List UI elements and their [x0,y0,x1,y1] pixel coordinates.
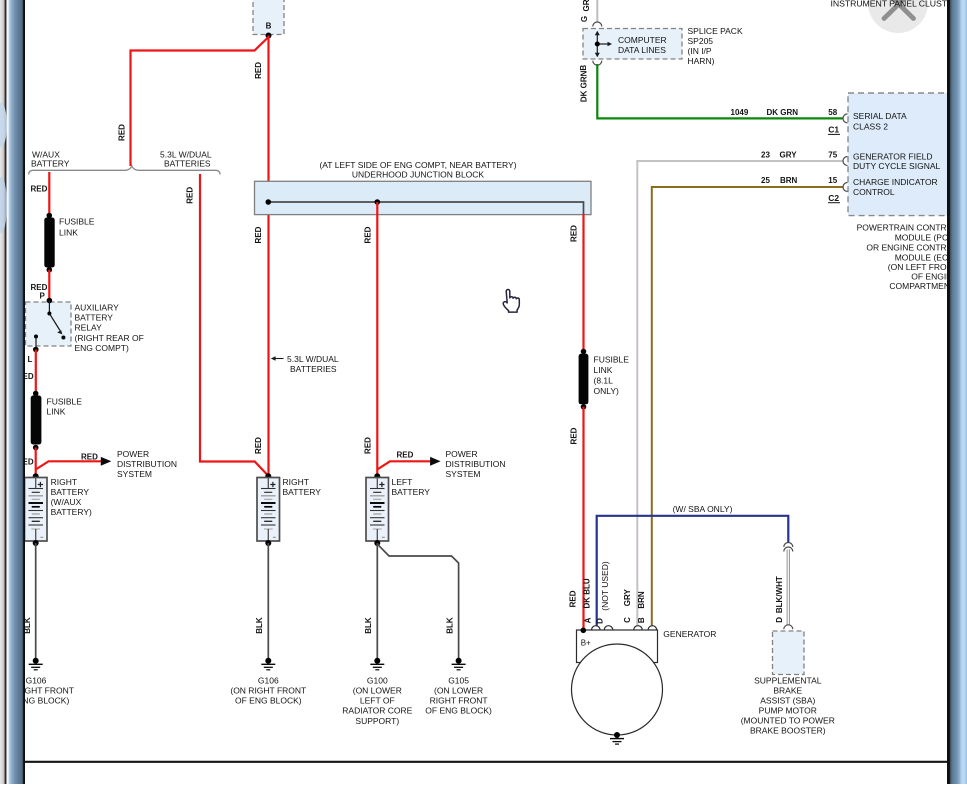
connector arc SBA pin D [784,625,793,630]
svg-text:UNDERHOOD JUNCTION BLOCK: UNDERHOOD JUNCTION BLOCK [352,169,485,179]
svg-text:BLK: BLK [445,617,454,634]
svg-text:SYSTEM: SYSTEM [446,469,481,479]
svg-text:BRAKE: BRAKE [773,685,802,695]
svg-text:ASSIST (SBA): ASSIST (SBA) [760,695,815,705]
auxiliary battery relay K1 [26,298,72,353]
svg-text:G: G [580,16,589,22]
svg-text:LEFT: LEFT [392,477,413,487]
svg-text:1049: 1049 [731,108,749,117]
wire GRY from PCM pin 75 to generator pin C [637,161,842,626]
ground G100 [370,658,384,670]
left bar soft highlight blob [0,103,7,147]
svg-text:RED: RED [31,184,48,193]
fusible link F2 top dot [33,391,39,397]
svg-text:BATTERY): BATTERY) [51,507,92,517]
left window edge bar [0,0,25,784]
svg-text:(ON RIGHT FRONT: (ON RIGHT FRONT [230,686,306,696]
wire BLK battery BT2 to ground G106 [267,543,269,660]
connector arc pin 15 [843,183,848,192]
svg-text:5.3L W/DUAL: 5.3L W/DUAL [287,354,339,364]
svg-text:RED: RED [81,452,98,461]
svg-text:GRY: GRY [780,150,798,159]
label SUPPLEMENTAL BRAKE ASSIST (SBA) PUMP MOTOR [741,676,835,736]
svg-text:(NOT USED): (NOT USED) [600,561,610,611]
battery BT2 right battery [257,478,280,542]
svg-text:C2: C2 [828,193,839,203]
connector arc bottom of splice pack [593,61,602,65]
svg-text:DUTY CYCLE SIGNAL: DUTY CYCLE SIGNAL [853,161,941,171]
svg-text:SP205: SP205 [688,36,714,46]
fusible link F1 top dot [47,213,53,219]
wire RED brace-left down to fusible link [48,172,50,216]
close button [868,0,928,33]
wire BLK/WHT to SBA pump motor [787,550,790,625]
fusible link F2 [31,396,42,445]
svg-text:RELAY: RELAY [75,323,103,333]
wire BLK battery BT3 to ground G100 [376,543,378,660]
svg-text:23: 23 [761,150,770,159]
svg-text:D: D [775,617,784,623]
battery BT1 right battery (w/aux battery) [25,478,48,542]
svg-text:RED: RED [186,187,195,204]
wire RED branch to power distribution [36,461,101,469]
battery BT3 left battery top dot [374,473,380,479]
wire DK GRN from splice pack to PCM pin 58 [597,64,842,118]
svg-text:B: B [637,617,646,623]
svg-text:BATTERY: BATTERY [51,487,90,497]
svg-text:D: D [595,618,604,624]
svg-text:BATTERY: BATTERY [31,159,70,169]
wire bus bar inside junction block [268,202,583,215]
svg-text:DISTRIBUTION: DISTRIBUTION [117,459,177,469]
wire RED bus to left battery [376,202,378,477]
ground G105 [452,658,466,670]
wire RED fusible link F2 to right battery(w/aux) [35,448,37,477]
hand cursor [503,289,519,312]
wire RED branch to power distribution (left battery) [377,461,430,469]
wire RED vertical from pin B down to right battery [267,36,269,478]
splice pack internal double arrow [595,31,612,57]
svg-text:RED: RED [254,62,263,79]
svg-text:LINK: LINK [59,228,78,238]
svg-text:BATTERY: BATTERY [75,313,114,323]
svg-text:RED: RED [254,226,263,243]
node bus dot at x=268 [266,199,272,205]
fusible link F1 bottom dot [47,267,53,273]
svg-text:RED: RED [363,437,372,454]
right window edge bar [947,0,967,784]
svg-text:(W/AUX: (W/AUX [51,497,82,507]
svg-text:RED: RED [117,124,126,141]
connector arc generator pin B [648,626,657,630]
svg-text:(MOUNTED TO POWER: (MOUNTED TO POWER [741,715,835,725]
svg-text:75: 75 [828,150,837,159]
battery BT2 right battery top dot [265,473,271,479]
svg-text:BLK: BLK [364,617,373,634]
arrow to power distribution system [430,457,441,466]
svg-text:RED: RED [397,451,414,460]
svg-text:OF ENG BLOCK): OF ENG BLOCK) [235,696,302,706]
svg-text:B: B [266,22,272,31]
svg-text:DISTRIBUTION: DISTRIBUTION [446,459,506,469]
PCM connector box (clipped right) [848,93,965,216]
wire RED relay pin L down to fusible link F2 [35,350,37,394]
svg-text:C1: C1 [828,125,839,135]
svg-text:RIGHT FRONT: RIGHT FRONT [430,696,488,706]
svg-text:BATTERY: BATTERY [283,487,322,497]
svg-text:POWER: POWER [446,449,478,459]
svg-text:RIGHT: RIGHT [51,477,77,487]
svg-text:GRY: GRY [582,0,591,12]
battery BT1 bottom dot [33,540,39,546]
svg-text:GENERATOR: GENERATOR [663,629,716,639]
svg-text:BRN: BRN [637,591,646,609]
fusible link F1 [44,218,54,268]
svg-text:FUSIBLE: FUSIBLE [47,397,83,407]
svg-text:BLK: BLK [255,617,264,634]
note arrow 5.3L W/DUAL BATTERIES [271,356,284,361]
connector B-box (instrument panel cluster pin B, clipped at top) [253,0,284,35]
svg-text:G105: G105 [448,675,469,685]
svg-text:(IN I/P: (IN I/P [688,46,712,56]
svg-text:BRN: BRN [780,176,798,185]
svg-text:GRY: GRY [623,589,632,607]
wire RED from brace-right (5.3L w/dual) down and over to right battery [200,174,268,476]
svg-text:25: 25 [761,176,770,185]
label G105 (ON LOWER RIGHT FRONT OF ENG BLOCK) [425,675,492,715]
battery BT2 bottom dot [265,540,271,546]
svg-text:CLASS 2: CLASS 2 [853,121,888,131]
svg-text:HARN): HARN) [688,56,715,66]
node bus dot at x=377 [375,199,381,205]
svg-text:CONTROL: CONTROL [853,187,895,197]
connector arc pin 58 [843,114,848,123]
battery BT3 left battery [366,478,389,542]
connector arc generator pin A [592,626,601,630]
svg-text:(ON LOWER: (ON LOWER [353,686,402,696]
svg-text:SYSTEM: SYSTEM [117,469,152,479]
svg-text:OF ENG BLOCK): OF ENG BLOCK) [425,706,492,716]
connector arc top of splice pack [593,22,602,27]
svg-text:CHARGE INDICATOR: CHARGE INDICATOR [853,177,938,187]
svg-text:SUPPORT): SUPPORT) [355,716,399,726]
wire RED branch from pin B going left to brace [131,37,269,166]
fusible link F2 bottom dot [33,445,39,451]
svg-text:COMPUTER: COMPUTER [618,35,667,45]
connector arc generator pin D [604,626,613,630]
svg-text:(RIGHT REAR OF: (RIGHT REAR OF [75,333,144,343]
connector arc generator pin C [634,626,643,630]
svg-text:SUPPLEMENTAL: SUPPLEMENTAL [754,676,822,686]
svg-text:BATTERIES: BATTERIES [164,159,211,169]
svg-text:B+: B+ [581,638,591,647]
fusible link F3 top dot [581,349,587,355]
label G106 (ON RIGHT FRONT OF ENG BLOCK) [230,675,306,705]
bottom frame line of schematic page [25,761,948,763]
svg-text:DK GRN: DK GRN [579,70,588,102]
wire RED junction block to fusible link F3 [582,214,584,352]
battery BT1 right battery (w/aux) top dot [33,473,39,479]
svg-text:RED: RED [254,437,263,454]
svg-text:L: L [28,355,33,364]
svg-text:OR ENGINE CONTROL: OR ENGINE CONTROL [866,243,958,253]
fusible link F3 (8.1L only) [579,354,589,405]
svg-text:G106: G106 [258,675,279,685]
connector arc pin 75 [843,157,848,166]
svg-text:DK GRN: DK GRN [767,108,799,117]
svg-text:(W/ SBA ONLY): (W/ SBA ONLY) [673,504,733,514]
wire DK BLU generator pin A to SBA connector [597,516,789,626]
svg-text:LINK: LINK [594,365,613,375]
svg-text:P: P [40,291,46,300]
svg-text:RED: RED [569,225,578,242]
svg-text:DATA LINES: DATA LINES [618,45,666,55]
wire BLK battery BT3 branch to ground G105 [377,544,458,660]
svg-text:POWERTRAIN CONTROL: POWERTRAIN CONTROL [857,223,959,233]
svg-text:GENERATOR FIELD: GENERATOR FIELD [853,151,933,161]
svg-text:FUSIBLE: FUSIBLE [59,217,95,227]
svg-text:G100: G100 [367,675,388,685]
svg-text:(ON LOWER: (ON LOWER [434,686,483,696]
ground G106 (left, clipped) [29,658,43,670]
wire BRN from PCM pin 15 to generator pin B [652,187,843,626]
splice pack internal dot [595,42,600,47]
svg-text:BATTERY: BATTERY [392,487,431,497]
splice pack gray stub wire at top [596,0,598,23]
svg-text:15: 15 [828,176,837,185]
splice pack SP205 box [583,29,682,60]
svg-text:POWER: POWER [117,449,149,459]
svg-text:BATTERIES: BATTERIES [290,364,337,374]
svg-text:RED: RED [363,226,372,243]
svg-text:ONLY): ONLY) [594,386,620,396]
svg-text:BRAKE BOOSTER): BRAKE BOOSTER) [750,725,826,735]
arrow to power distribution system [101,457,112,466]
battery BT3 bottom dot [374,540,380,546]
inline connector arcs on SBA wire [784,543,793,552]
wire RED fusible link to relay pin P [48,270,50,301]
svg-text:PUMP MOTOR: PUMP MOTOR [759,705,817,715]
ground at generator case [610,732,624,744]
svg-text:B: B [579,65,588,71]
fusible link F3 bottom dot [581,404,587,410]
underhood junction block [255,181,592,214]
svg-text:C: C [623,617,632,623]
label G106 (ON RIGHT FRONT OF ENG BLOCK) clipped [0,675,74,705]
label G100 (ON LOWER LEFT OF RADIATOR CORE SUPPORT) [342,675,412,725]
wire BLK battery BT1 to ground G106 [35,543,37,660]
node junction dot at pin B [266,33,272,39]
svg-text:INSTRUMENT PANEL CLUSTER: INSTRUMENT PANEL CLUSTER [831,0,960,9]
ground G106 [261,658,275,670]
svg-text:LINK: LINK [47,407,66,417]
brace W/AUX BATTERY | 5.3L W/DUAL BATTERIES [29,166,220,175]
svg-text:G106: G106 [26,675,47,685]
svg-text:RIGHT: RIGHT [283,477,309,487]
generator G1 body [572,630,663,735]
svg-text:58: 58 [828,108,837,117]
svg-text:(8.1L: (8.1L [594,376,614,386]
wire RED fusible link F3 to generator B+ [582,407,584,630]
svg-text:RED: RED [569,427,578,444]
SBA pump motor box [773,631,805,675]
svg-text:SERIAL DATA: SERIAL DATA [853,111,907,121]
svg-text:FUSIBLE: FUSIBLE [594,355,630,365]
svg-text:DK BLU: DK BLU [583,578,592,608]
svg-text:LEFT OF: LEFT OF [360,696,395,706]
label POWERTRAIN CONTROL MODULE (clipped right) [857,223,959,292]
svg-text:RADIATOR CORE: RADIATOR CORE [342,706,412,716]
svg-text:ENG COMPT): ENG COMPT) [75,343,129,353]
svg-text:SPLICE PACK: SPLICE PACK [688,26,743,36]
svg-text:RED: RED [569,590,578,607]
svg-text:A: A [583,617,592,623]
svg-text:BLK/WHT: BLK/WHT [775,576,784,613]
node B+ terminal dot [581,628,587,634]
svg-text:AUXILIARY: AUXILIARY [75,302,120,312]
